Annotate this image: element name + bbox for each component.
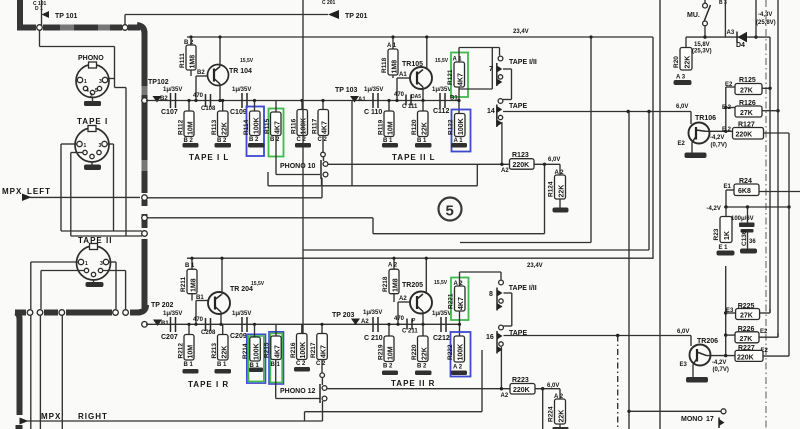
svg-text:TAPE II L: TAPE II L [392, 153, 436, 162]
svg-text:R120: R120 [411, 119, 418, 135]
ground TAPE I [84, 162, 101, 170]
capacitor C136 [731, 207, 756, 249]
label MPX LEFT [2, 187, 51, 196]
capacitor C208 [193, 317, 216, 336]
capacitor C212 [432, 311, 451, 342]
highlight green box R221 [451, 278, 469, 321]
wire 23.4V top rail [187, 36, 653, 38]
svg-text:MPX: MPX [2, 187, 22, 196]
wire TR205 emitter [421, 312, 424, 326]
svg-text:27K: 27K [740, 88, 753, 95]
label MPX RIGHT [41, 412, 108, 421]
svg-text:5: 5 [446, 203, 454, 220]
wire R221 to R222 [458, 311, 461, 336]
wire feedback vertical B [776, 0, 779, 337]
svg-text:4K7: 4K7 [458, 297, 465, 310]
resistor R211 [180, 257, 198, 301]
wire TR204 emitter [219, 312, 222, 326]
svg-text:PHONO 10: PHONO 10 [280, 163, 316, 170]
svg-text:E3: E3 [680, 362, 688, 368]
svg-text:TR106: TR106 [695, 115, 716, 122]
ground R119 [382, 143, 398, 148]
wire phono10 return line [147, 197, 322, 199]
svg-text:E1: E1 [724, 184, 732, 190]
svg-text:1μ/35V: 1μ/35V [163, 87, 182, 93]
svg-text:220K: 220K [513, 387, 530, 394]
svg-text:C207: C207 [161, 334, 178, 341]
svg-text:TAPE: TAPE [509, 103, 527, 110]
svg-text:14: 14 [487, 108, 495, 115]
node stage3 input [142, 322, 148, 328]
highlight green box R215 [270, 333, 282, 382]
capacitor C207 [161, 311, 182, 341]
svg-text:R23: R23 [713, 228, 720, 240]
svg-text:6,0V: 6,0V [676, 104, 688, 110]
svg-text:100K: 100K [300, 342, 307, 359]
svg-text:E2: E2 [760, 329, 768, 335]
connector PHONO 12 [280, 384, 327, 403]
svg-text:1K: 1K [724, 231, 731, 240]
capacitor C210 [363, 310, 383, 342]
svg-text:4: 4 [86, 88, 89, 94]
svg-text:TAPE I/II: TAPE I/II [509, 285, 537, 292]
ground R212 [183, 369, 199, 374]
ground R124 [553, 208, 569, 213]
transistor TR206 [680, 338, 719, 368]
wire TR206 collector [707, 354, 736, 357]
svg-text:C107: C107 [161, 109, 178, 116]
wire TR106 collector [706, 130, 733, 133]
svg-text:PHONO 12: PHONO 12 [280, 388, 316, 395]
svg-text:17: 17 [706, 416, 714, 423]
svg-text:470: 470 [193, 317, 204, 323]
svg-text:27K: 27K [740, 110, 753, 117]
switch MU [687, 0, 711, 37]
ground R219 [382, 371, 398, 376]
svg-text:1M8: 1M8 [392, 60, 399, 74]
wire main signal line top [146, 100, 459, 102]
node on bus [122, 25, 128, 31]
resistor R24 [724, 178, 800, 207]
svg-text:470: 470 [394, 92, 405, 98]
svg-text:B1: B1 [196, 295, 204, 301]
wire down from node2 [39, 315, 41, 429]
resistor R224 [548, 389, 566, 427]
wire phono10 lower link [268, 164, 477, 186]
svg-text:TAPE I/II: TAPE I/II [509, 59, 537, 66]
wire R123 junction down [544, 164, 546, 233]
svg-text:TP 202: TP 202 [151, 302, 174, 309]
svg-text:C 211: C 211 [402, 329, 418, 335]
svg-text:C109: C109 [230, 109, 247, 116]
ground R120 [415, 143, 432, 148]
wire TR205 base [396, 296, 410, 326]
resistor R226 [735, 326, 778, 343]
test point TP102 [148, 79, 169, 103]
wire TR104 collector [218, 35, 221, 66]
wire TAPE I left pin [61, 144, 77, 231]
svg-text:C112: C112 [433, 108, 449, 115]
ground R220 [415, 371, 432, 376]
wire TR206 emitter to ground [686, 365, 708, 383]
wire R215 down to phono12 [276, 360, 320, 399]
svg-text:6,0V: 6,0V [547, 383, 559, 389]
resistor R217 [310, 323, 328, 367]
ground R20 [674, 80, 692, 85]
highlight blue box R222 [451, 332, 471, 377]
wire switch16 tap to R223 [500, 347, 502, 389]
transistor TR105 [402, 58, 449, 89]
svg-text:B1: B1 [450, 96, 458, 102]
svg-text:TP 203: TP 203 [332, 312, 355, 319]
svg-text:R218: R218 [382, 276, 389, 292]
svg-text:R111: R111 [179, 53, 186, 68]
svg-text:TR205: TR205 [402, 282, 423, 289]
svg-text:7: 7 [489, 66, 493, 73]
wire TAPE I pin3 [107, 144, 114, 231]
wire tape-line drop dash [617, 336, 619, 429]
svg-text:100K: 100K [458, 344, 465, 361]
capacitor C112 [432, 87, 451, 115]
transistor TR204 [208, 281, 265, 314]
wire TAPE II pin4 [41, 271, 85, 310]
wire tape line riser [351, 101, 353, 186]
svg-text:1μ/35V: 1μ/35V [432, 311, 451, 317]
svg-text:4K7: 4K7 [458, 73, 465, 86]
svg-text:R114: R114 [243, 119, 250, 135]
wire feedback vertical A [768, 37, 771, 313]
svg-text:TP 101: TP 101 [55, 13, 78, 20]
node on bus [37, 25, 43, 31]
wire TR204 base [194, 295, 208, 326]
svg-text:1μ/35V: 1μ/35V [363, 310, 382, 316]
svg-text:TR 204: TR 204 [230, 286, 253, 293]
svg-text:22K: 22K [222, 346, 229, 359]
resistor R116 [291, 99, 308, 143]
connector PHONO 10 [280, 160, 328, 179]
svg-text:6,0V: 6,0V [677, 329, 689, 335]
svg-text:4K7: 4K7 [275, 345, 282, 358]
svg-text:1M8: 1M8 [190, 55, 197, 69]
wire second return line [148, 217, 374, 219]
wire MPX LEFT with arrow [22, 194, 140, 202]
svg-text:16: 16 [486, 334, 494, 341]
svg-text:A2: A2 [501, 168, 509, 174]
svg-text:B 1: B 1 [184, 362, 194, 368]
svg-text:TR 104: TR 104 [229, 68, 252, 75]
svg-text:C 111: C 111 [402, 104, 418, 110]
svg-text:3: 3 [99, 143, 102, 149]
svg-text:TP 201: TP 201 [345, 13, 368, 20]
svg-text:TR105: TR105 [402, 61, 423, 68]
wire TAPE line top [503, 110, 691, 113]
resistor R124 [548, 164, 566, 207]
svg-text:E 2: E 2 [722, 127, 732, 133]
wire TR105 emitter [421, 87, 424, 102]
svg-text:A 1: A 1 [387, 43, 397, 49]
wire D4 line [686, 35, 758, 38]
svg-text:R215: R215 [264, 342, 271, 358]
svg-text:22K: 22K [422, 347, 429, 360]
resistor R111 [179, 35, 197, 76]
wire 23.4V bottom rail [187, 258, 653, 269]
label MONO 17 [681, 416, 714, 423]
wire C101 vertical [41, 0, 43, 28]
svg-text:470: 470 [193, 93, 204, 99]
svg-text:220K: 220K [736, 132, 753, 139]
connector PHONO (DIN) [76, 55, 109, 99]
wire switch7 output [503, 69, 512, 100]
wire A3 drop [719, 0, 735, 37]
resistor R213 [211, 324, 229, 368]
svg-text:(0,7V): (0,7V) [711, 143, 727, 149]
wire vertical pass x660 [659, 0, 661, 429]
svg-text:27K: 27K [740, 336, 753, 343]
svg-text:220K: 220K [513, 162, 530, 169]
resistor R123 [500, 152, 560, 174]
svg-text:A2: A2 [501, 393, 509, 399]
switch TAPE I/II section 14 [487, 99, 527, 127]
svg-text:R112: R112 [178, 119, 185, 135]
wire TR106 emitter to ground [685, 143, 707, 159]
svg-text:D4: D4 [736, 42, 745, 49]
ground R216 [294, 367, 310, 372]
svg-text:R116: R116 [291, 118, 298, 134]
node stage1 input [142, 98, 148, 104]
svg-text:C209: C209 [230, 333, 247, 340]
svg-text:1: 1 [84, 79, 87, 85]
svg-text:-4,3V: -4,3V [758, 12, 772, 18]
node bus bottom 4 [113, 310, 119, 316]
svg-text:1μ/35V: 1μ/35V [232, 87, 251, 93]
svg-text:R115: R115 [264, 118, 271, 134]
svg-text:6K8: 6K8 [738, 188, 751, 195]
svg-text:R118: R118 [381, 57, 388, 73]
svg-text:B 1: B 1 [185, 263, 195, 269]
svg-text:B 1: B 1 [217, 362, 227, 368]
highlight blue box R214 [247, 334, 266, 383]
svg-text:3: 3 [100, 261, 103, 267]
svg-text:R119: R119 [378, 119, 385, 135]
ground R114 [248, 143, 265, 148]
svg-text:C 201: C 201 [322, 0, 336, 6]
svg-text:R20: R20 [673, 56, 680, 68]
transistor TR106 [678, 115, 717, 147]
svg-text:100K: 100K [458, 118, 465, 135]
node bus bottom 1 [27, 310, 33, 316]
svg-text:22K: 22K [422, 122, 429, 135]
wire R223 junction down [542, 389, 544, 429]
ground R23 [717, 251, 735, 256]
resistor R20 [673, 37, 692, 80]
svg-text:RIGHT: RIGHT [78, 412, 108, 421]
wire MONO line [629, 409, 726, 414]
test point TP202 [151, 302, 174, 327]
svg-text:C 210: C 210 [364, 335, 383, 342]
resistor R219 [378, 323, 395, 370]
svg-text:5: 5 [95, 88, 98, 94]
switch MONO contact [719, 418, 725, 429]
svg-text:TP102: TP102 [148, 79, 169, 86]
highlight green box R121 [451, 53, 468, 98]
svg-text:A1: A1 [399, 72, 407, 78]
resistor R122 [448, 114, 466, 145]
svg-text:TAPE I R: TAPE I R [188, 380, 229, 389]
svg-text:TP 103: TP 103 [335, 87, 358, 94]
resistor R125 [725, 77, 770, 95]
wire TR204 collector [220, 257, 223, 295]
resistor R127 [722, 122, 789, 140]
svg-text:R222: R222 [447, 344, 454, 360]
svg-text:22K: 22K [559, 185, 566, 198]
wire routing band h250 [303, 0, 649, 250]
ground R116 [295, 143, 311, 148]
wire switch14 tap to R123 [501, 122, 503, 164]
svg-text:B 2: B 2 [383, 364, 393, 370]
capacitor C111 [394, 92, 421, 110]
wire riser x303 lower [302, 250, 304, 334]
svg-text:C 110: C 110 [364, 109, 382, 116]
svg-text:R122: R122 [448, 119, 455, 135]
highlight green box R214 [249, 336, 264, 381]
svg-text:C108: C108 [201, 106, 216, 112]
wire tape heads to bus node [61, 231, 142, 236]
capacitor C211 [394, 316, 418, 335]
switch TAPE I/II section 16 [486, 325, 527, 353]
svg-text:DA5: DA5 [411, 94, 421, 100]
svg-text:B 2: B 2 [417, 364, 427, 370]
node bus bottom 5 [123, 310, 129, 316]
ground TAPE II [86, 280, 104, 287]
svg-text:1μ/35V: 1μ/35V [432, 87, 451, 93]
resistor R126 [722, 100, 778, 117]
shielded bus top-left elbow [17, 0, 36, 28]
resistor R216 [290, 324, 307, 367]
wire TAPE line bottom [504, 334, 692, 337]
switch TAPE I/II section 8 [489, 280, 537, 310]
wire R225-R226-collector link [724, 266, 736, 356]
svg-text:MU.: MU. [687, 12, 700, 19]
svg-text:23,4V: 23,4V [513, 29, 529, 35]
wire mono vertical [627, 112, 630, 429]
test point TP201 [328, 10, 368, 20]
node second return [142, 215, 148, 221]
resistor R120 [411, 101, 429, 145]
resistor R218 [382, 257, 400, 302]
svg-text:R214: R214 [242, 343, 249, 359]
wire routing band h242 [460, 35, 593, 242]
svg-text:1M8: 1M8 [191, 278, 198, 292]
wire MPX RIGHT with arrow [20, 418, 323, 425]
svg-text:10M: 10M [188, 121, 195, 135]
label -4,2V TR206 [712, 360, 729, 373]
wire TR205 collector [425, 257, 428, 294]
wire main signal line bottom [146, 323, 460, 325]
svg-text:4K7: 4K7 [275, 121, 282, 134]
wire R121 top feed [459, 48, 500, 63]
wire routing band h233 [373, 218, 545, 234]
svg-text:36: 36 [749, 239, 756, 245]
svg-text:8: 8 [489, 291, 493, 298]
svg-text:A 3: A 3 [676, 75, 686, 81]
svg-text:1μ/35V: 1μ/35V [232, 311, 251, 317]
svg-text:-4,2V: -4,2V [712, 360, 726, 366]
capacitor C107 [161, 87, 182, 116]
svg-text:10M: 10M [388, 346, 395, 360]
svg-text:TAPE II R: TAPE II R [391, 379, 435, 388]
svg-text:22K: 22K [222, 122, 229, 135]
svg-text:6,0V: 6,0V [548, 157, 560, 163]
svg-text:B 2: B 2 [249, 137, 259, 143]
svg-text:27K: 27K [740, 313, 753, 320]
wire TR104 base [194, 70, 207, 102]
label 15,8V [692, 42, 712, 55]
transistor TR205 [402, 280, 448, 314]
svg-text:R221: R221 [448, 293, 455, 309]
resistor R23 [713, 207, 732, 251]
svg-text:15,8V: 15,8V [694, 42, 710, 48]
ground C136 [740, 249, 757, 254]
svg-text:PHONO: PHONO [78, 55, 104, 62]
wire TAPE I lower pin [71, 153, 83, 237]
test point TP203 [332, 312, 369, 325]
svg-text:-4,2V: -4,2V [707, 206, 721, 212]
svg-text:R121: R121 [447, 69, 454, 85]
wire phono12 to mpx-right [322, 401, 324, 421]
svg-text:A 2: A 2 [453, 365, 463, 371]
svg-text:R217: R217 [310, 342, 317, 358]
svg-text:LEFT: LEFT [27, 187, 51, 196]
svg-text:15,5V: 15,5V [435, 58, 449, 64]
svg-text:B2: B2 [197, 70, 205, 76]
svg-text:MONO: MONO [681, 416, 703, 423]
svg-text:E 1: E 1 [719, 245, 729, 251]
wire 23.4V corner down [652, 37, 654, 259]
svg-text:A 2: A 2 [388, 263, 398, 269]
ground PHONO [84, 98, 101, 107]
svg-text:R213: R213 [211, 343, 218, 359]
svg-text:100K: 100K [254, 117, 261, 134]
resistor R223 [500, 377, 560, 399]
wire switch8 output [504, 293, 512, 326]
ground R224 [553, 427, 569, 429]
svg-text:R117: R117 [312, 118, 319, 134]
connector TAPE II (DIN) [77, 236, 113, 280]
shielded bus horizontal top [43, 25, 140, 31]
wire phono12 lower link [305, 350, 483, 421]
label -4,2V TR106 [710, 135, 727, 149]
svg-text:TAPE I: TAPE I [77, 117, 108, 126]
wire TP201 feed line [125, 15, 328, 26]
svg-text:R211: R211 [180, 276, 187, 292]
svg-text:10M: 10M [188, 345, 195, 359]
resistor R112 [178, 99, 195, 144]
resistor R113 [211, 99, 229, 144]
svg-text:E2: E2 [725, 82, 733, 88]
svg-text:A2: A2 [399, 296, 407, 302]
svg-text:22K: 22K [559, 410, 566, 423]
svg-text:E3: E3 [726, 308, 734, 314]
wire R221 top feed [460, 272, 502, 286]
connector TAPE I (DIN) [75, 117, 109, 162]
svg-text:R224: R224 [548, 406, 555, 422]
svg-text:E2: E2 [678, 141, 686, 147]
ground R122 [451, 143, 467, 148]
highlight green box R115 [269, 109, 284, 157]
svg-text:1: 1 [85, 261, 88, 267]
wire down from node3 [61, 315, 63, 429]
svg-text:4K7: 4K7 [321, 345, 328, 358]
